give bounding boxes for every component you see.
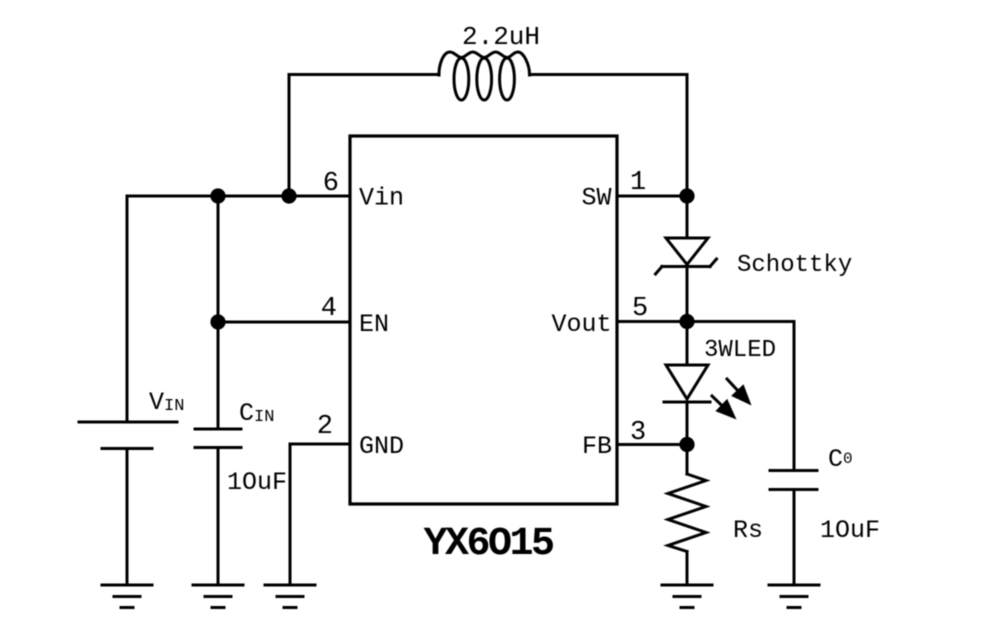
svg-text:VIN: VIN (149, 388, 184, 417)
wire GND vertical down (289, 444, 292, 585)
diode D1 Schottky (656, 238, 717, 274)
wire Vout dot to Co branch (687, 320, 794, 323)
svg-text:FB: FB (582, 432, 612, 461)
svg-text:2.2uH: 2.2uH (462, 22, 540, 52)
wire left vertical of top loop (288, 75, 291, 197)
svg-text:5: 5 (632, 294, 648, 324)
ground GND3 (IC GND pin) (265, 585, 315, 608)
ground GND4 (Rs) (662, 585, 712, 608)
svg-text:GND: GND (359, 432, 404, 461)
svg-text:1: 1 (630, 168, 646, 198)
wire FB row (617, 443, 687, 446)
wire LED to FB dot (686, 402, 689, 445)
wire SW dot to schottky (686, 196, 689, 238)
svg-text:Rs: Rs (733, 516, 763, 545)
wire top-right horizontal (530, 73, 688, 76)
svg-text:Vout: Vout (551, 310, 611, 339)
wire SW row (617, 195, 687, 198)
svg-text:EN: EN (359, 310, 389, 339)
svg-text:1OuF: 1OuF (820, 516, 880, 545)
wire Vout row (617, 320, 687, 323)
wire far-left vertical to battery (126, 196, 129, 422)
svg-text:2: 2 (317, 412, 333, 442)
wire top-left horizontal (289, 73, 439, 76)
ground GND1 (battery) (102, 585, 152, 608)
battery V_IN (79, 422, 177, 585)
wire schottky to Vout dot (686, 267, 689, 322)
node junction dot Vout (687,321.5) (679, 314, 694, 329)
inductor L1 2.2uH (439, 52, 530, 75)
wire vertical 218 Vin-row to CIN (217, 196, 220, 429)
node junction dot SW (687,195) (679, 188, 694, 203)
ground GND2 (CIN) (193, 585, 243, 608)
op-amp U1 YX6015 IC body (350, 136, 617, 504)
LED D2 (664, 365, 710, 402)
wire Vout dot to LED (686, 322, 689, 366)
svg-text:4: 4 (321, 294, 337, 324)
capacitor CIN (195, 429, 241, 585)
svg-text:3WLED: 3WLED (704, 337, 776, 364)
wire right vertical of top loop (686, 75, 689, 197)
svg-text:6: 6 (323, 169, 339, 199)
wire Vin row (127, 195, 350, 198)
svg-text:CIN: CIN (239, 399, 274, 428)
svg-text:C0: C0 (828, 445, 853, 474)
svg-text:Vin: Vin (359, 184, 404, 213)
ground GND5 (Co) (769, 585, 819, 608)
resistor Rs (668, 445, 706, 586)
LED arrow 1 (727, 379, 752, 406)
wire GND pin (290, 443, 350, 446)
node junction dot C (218,322) (210, 314, 225, 329)
capacitor Co (770, 322, 817, 586)
svg-text:SW: SW (581, 184, 611, 213)
node junction dot FB (687,444.5) (679, 437, 694, 452)
svg-text:1OuF: 1OuF (227, 468, 287, 497)
node junction dot B (289,195) (281, 188, 296, 203)
LED arrow 2 (712, 396, 737, 420)
svg-text:YX6O15: YX6O15 (423, 522, 553, 567)
node junction dot A (218,195) (210, 188, 225, 203)
wire EN row (218, 321, 350, 324)
svg-text:Schottky: Schottky (737, 252, 852, 279)
